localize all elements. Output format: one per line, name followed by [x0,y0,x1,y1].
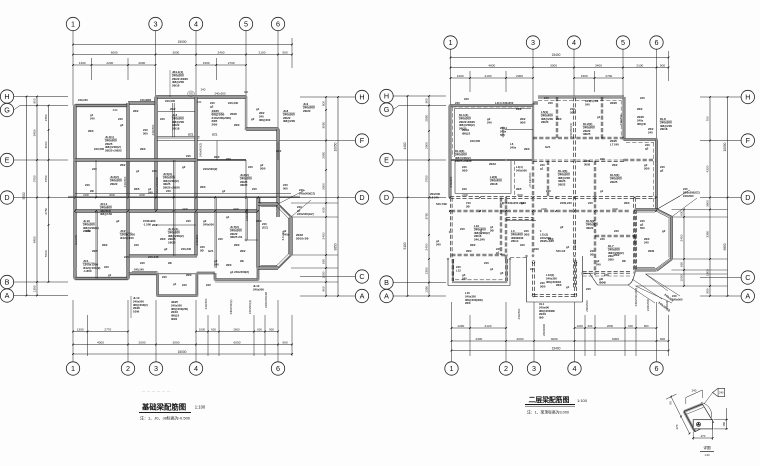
svg-text:240: 240 [124,255,129,259]
svg-text:4: 4 [194,19,198,28]
svg-text:3Φ25: 3Φ25 [240,183,248,187]
svg-text:2Φ0: 2Φ0 [624,201,630,205]
svg-text:240: 240 [544,96,549,100]
svg-text:9850: 9850 [334,243,338,250]
svg-text:3000: 3000 [551,337,558,341]
svg-text:3000: 3000 [550,63,557,67]
svg-text:240x500(2): 240x500(2) [203,167,217,171]
svg-text:240: 240 [92,167,97,171]
svg-text:3600: 3600 [109,193,115,197]
svg-text:Φ12@150: Φ12@150 [120,236,134,240]
svg-text:2750: 2750 [44,207,48,214]
corner detail: top dimension [686,390,703,398]
svg-text:GZ1: GZ1 [545,145,551,149]
svg-text:GD: GD [244,90,248,94]
svg-text:详图: 详图 [703,445,711,450]
svg-text:1:100: 1:100 [577,398,588,403]
svg-text:630: 630 [680,210,684,215]
svg-text:240: 240 [214,262,219,266]
svg-text:9500: 9500 [22,192,26,199]
svg-text:900: 900 [425,98,429,103]
svg-text:900: 900 [282,50,287,54]
svg-text:B: B [5,277,10,286]
svg-text:90: 90 [669,401,673,405]
svg-text:2400: 2400 [462,193,468,197]
svg-text:240x500: 240x500 [501,126,505,137]
left plan: interior dim ticks along D band [74,197,76,199]
svg-text:g1: g1 [566,245,570,249]
svg-text:3200: 3200 [139,193,145,197]
svg-text:2Φ0x500(4Φ0): 2Φ0x500(4Φ0) [634,288,638,307]
svg-text:240x500: 240x500 [619,114,623,125]
svg-text:2Φ2: 2Φ2 [120,163,126,167]
svg-text:1: 1 [450,364,454,373]
svg-text:g1: g1 [490,267,494,271]
svg-text:2Φ0: 2Φ0 [540,284,546,288]
svg-text:2600: 2600 [607,324,614,328]
svg-text:H: H [384,91,389,100]
svg-text:2Φ16+2Φ: 2Φ16+2Φ [296,236,309,240]
svg-text:2400,240: 2400,240 [560,201,572,205]
svg-text:240,240: 240,240 [228,101,239,105]
svg-text:240: 240 [484,261,489,265]
svg-text:2400x500: 2400x500 [633,233,637,246]
svg-text:240: 240 [248,165,253,169]
svg-text:240x500: 240x500 [683,194,694,198]
svg-text:g2: g2 [521,201,525,205]
svg-text:240x: 240x [283,232,290,236]
svg-text:g5: g5 [500,271,504,275]
svg-text:2Φ2: 2Φ2 [524,232,530,236]
svg-text:3: 3 [532,364,536,373]
svg-text:2400: 2400 [322,232,326,239]
svg-text:GZ1: GZ1 [212,133,218,137]
svg-text:H: H [359,92,364,101]
svg-text:1200: 1200 [457,74,464,78]
svg-text:270: 270 [675,424,679,429]
svg-text:3400: 3400 [233,207,239,211]
svg-text:240: 240 [299,188,304,192]
svg-text:g1: g1 [496,250,500,254]
svg-text:240x500: 240x500 [214,92,225,96]
svg-text:2Φ0: 2Φ0 [556,283,562,287]
svg-text:4: 4 [573,364,577,373]
svg-text:2Φ0: 2Φ0 [260,166,266,170]
right plan: diagonal leaders at bay [657,190,691,210]
left plan: bottom grid bubbles [66,362,79,375]
svg-text:240,500: 240,500 [94,147,105,151]
svg-text:g2: g2 [182,165,186,169]
svg-text:g1: g1 [540,166,544,170]
svg-text:240: 240 [640,96,645,100]
svg-text:240: 240 [201,88,206,92]
svg-text:600: 600 [257,327,262,331]
svg-text:2400x500: 2400x500 [646,298,650,311]
svg-text:240x500: 240x500 [195,234,199,245]
svg-text:240: 240 [197,100,202,104]
svg-text:3000: 3000 [584,162,591,166]
svg-text:2Φ0: 2Φ0 [140,147,146,151]
svg-text:240: 240 [162,275,167,279]
left plan: diagonal leaders at bay [278,190,305,204]
svg-text:2Φ0: 2Φ0 [160,237,166,241]
svg-text:4: 4 [572,38,576,47]
left plan: outer and main walls [75,105,128,107]
svg-text:3600: 3600 [517,193,523,197]
svg-text:500: 500 [283,186,288,190]
svg-text:2900: 2900 [425,142,429,149]
left plan: left dimension columns [26,97,28,296]
svg-text:240: 240 [648,130,653,134]
svg-text:2400: 2400 [218,50,225,54]
svg-text:L5 240x500: L5 240x500 [528,172,532,187]
svg-text:240: 240 [104,265,109,269]
svg-text:2Φ0: 2Φ0 [200,185,206,189]
svg-text:E: E [5,155,10,164]
svg-text:2Φ22: 2Φ22 [558,183,566,187]
svg-text:2Φ25: 2Φ25 [610,180,618,184]
left plan: top dimension sub row [73,64,156,66]
svg-text:D: D [384,193,389,202]
svg-text:A: A [360,291,365,300]
svg-text:2Φ14: 2Φ14 [511,239,519,243]
svg-text:3050: 3050 [322,121,326,128]
svg-text:240: 240 [464,97,469,101]
svg-text:2Φ0: 2Φ0 [256,219,262,223]
svg-text:240: 240 [226,157,231,161]
svg-text:JL2 240: JL2 240 [74,235,78,245]
svg-text:5100: 5100 [403,242,407,249]
svg-text:240x500(2): 240x500(2) [569,123,573,137]
svg-text:2Φ0: 2Φ0 [548,237,554,241]
svg-text:G: G [4,105,10,114]
right plan: inner dashed offsets along outer walls [452,106,531,108]
svg-text:240: 240 [218,237,223,241]
svg-text:6000: 6000 [111,50,118,54]
corner detail: wall tag [713,388,725,396]
svg-text:10050: 10050 [334,142,338,151]
svg-text:1300: 1300 [79,61,86,65]
svg-text:g2: g2 [116,219,120,223]
svg-text:240x500(2): 240x500(2) [248,300,252,314]
svg-text:2Φ0: 2Φ0 [644,166,650,170]
svg-text:2100: 2100 [259,50,266,54]
svg-text:240: 240 [436,242,441,246]
svg-text:240,ΦΦ0: 240,ΦΦ0 [140,98,152,102]
svg-text:Φ8@Φ: Φ8@Φ [637,122,647,126]
svg-text:240x500: 240x500 [516,168,527,172]
right plan: lower-left dashed room [499,198,501,256]
corner detail: right dimension [725,408,727,429]
svg-text:E: E [384,155,389,164]
svg-text:g2: g2 [251,117,255,121]
svg-text:2Φ16: 2Φ16 [172,84,180,88]
svg-text:1300: 1300 [77,327,84,331]
svg-text:1500: 1500 [203,61,210,65]
svg-text:240: 240 [160,117,165,121]
svg-text:240: 240 [148,190,153,194]
svg-text:2Φ5: 2Φ5 [212,123,218,127]
svg-text:2Φ2: 2Φ2 [170,107,176,111]
svg-text:240: 240 [460,227,465,231]
svg-text:1000: 1000 [199,327,206,331]
right plan: interior dashed beams [531,103,533,160]
svg-text:6: 6 [655,364,659,373]
right plan: bottom total [452,350,669,352]
svg-text:8450: 8450 [33,236,37,243]
svg-text:2Φ5: 2Φ5 [92,249,98,253]
left plan: interior beams [173,160,175,256]
svg-text:g2: g2 [210,104,214,108]
svg-text:g1: g1 [226,215,230,219]
left plan: grid bubbles top [66,17,79,30]
svg-text:2350: 2350 [425,267,429,274]
svg-text:ΦΦΦ: ΦΦΦ [599,280,607,284]
svg-text:10050: 10050 [723,142,727,151]
svg-text:240: 240 [596,262,601,266]
svg-text:240: 240 [487,120,492,124]
svg-text:3: 3 [154,19,158,28]
svg-text:240: 240 [672,294,677,298]
svg-text:2Φ2: 2Φ2 [133,109,139,113]
right plan: bottom sub dims [452,327,507,329]
svg-text:2000: 2000 [516,74,523,78]
svg-text:(GZ): (GZ) [262,225,268,229]
right plan: inner room rect E-D [454,161,456,194]
left plan: bottom extension lines [72,300,74,362]
svg-text:2Φ2: 2Φ2 [614,253,620,257]
svg-text:2700: 2700 [228,61,235,65]
svg-text:g2: g2 [120,123,124,127]
svg-text:240-240: 240-240 [148,255,159,259]
svg-text:2Φ20: 2Φ20 [230,112,237,116]
svg-text:3: 3 [154,364,158,373]
svg-text:2Φ20: 2Φ20 [541,120,549,124]
svg-text:240x: 240x [510,145,517,149]
svg-text:240x500: 240x500 [449,176,453,187]
svg-text:240: 240 [604,273,609,277]
svg-text:240: 240 [85,183,90,187]
right plan: top grid bubbles [444,36,457,49]
svg-text:1290: 1290 [457,324,464,328]
svg-text:2Φ20: 2Φ20 [610,101,617,105]
svg-text:3000: 3000 [173,340,180,344]
svg-text:H: H [745,92,750,101]
svg-text:ΦΦ0: ΦΦ0 [171,317,178,321]
svg-text:g1: g1 [136,169,140,173]
svg-text:基础梁配筋图: 基础梁配筋图 [141,403,186,412]
svg-text:2000: 2000 [517,337,524,341]
svg-text:240: 240 [586,287,591,291]
left plan: bay window walls [257,198,259,269]
svg-text:500: 500 [143,131,148,135]
svg-text:240: 240 [588,201,593,205]
svg-text:900: 900 [269,327,274,331]
svg-text:240: 240 [520,243,525,247]
svg-text:240: 240 [166,189,171,193]
svg-text:240: 240 [186,154,191,158]
svg-text:600: 600 [588,324,593,328]
svg-text:15400: 15400 [552,346,561,350]
svg-text:240: 240 [182,283,187,287]
svg-text:D: D [359,193,364,202]
svg-text:5: 5 [244,19,248,28]
svg-text:2Φ0: 2Φ0 [524,147,530,151]
svg-text:240: 240 [479,229,483,234]
svg-text:2Φ0: 2Φ0 [234,243,240,247]
svg-text:-1.500: -1.500 [143,222,151,226]
svg-text:240x500: 240x500 [253,287,264,291]
svg-text:240x500: 240x500 [517,308,521,319]
svg-text:2Φ0: 2Φ0 [466,249,472,253]
svg-text:240: 240 [530,267,535,271]
right plan: bottom values dims [452,340,669,342]
svg-text:2100: 2100 [636,63,643,67]
right plan: top total 15400 [451,57,669,59]
svg-text:500: 500 [640,226,645,230]
svg-text:g2: g2 [660,168,664,172]
svg-text:240: 240 [614,229,619,233]
svg-text:240: 240 [534,247,539,251]
svg-text:240x500: 240x500 [203,222,214,226]
svg-text:4: 4 [194,364,198,373]
right plan: left grid bubbles [380,89,393,102]
svg-text:4400: 4400 [403,142,407,149]
svg-text:240: 240 [186,219,191,223]
svg-text:240: 240 [644,240,649,244]
svg-text:2Φ22: 2Φ22 [110,182,118,186]
svg-text:-1.800: -1.800 [83,269,92,273]
right plan: bottom grid bubbles [445,362,458,375]
svg-text:1500: 1500 [581,74,588,78]
svg-text:240: 240 [455,101,460,105]
svg-text:注：1、J0、J8标高为-0.500: 注：1、J0、J8标高为-0.500 [140,415,191,421]
svg-text:240: 240 [548,101,553,105]
svg-text:2Φ2: 2Φ2 [570,110,576,114]
svg-text:630: 630 [322,259,326,264]
svg-text:2Φ2: 2Φ2 [240,249,246,253]
svg-text:Φ8@200: Φ8@200 [259,118,271,122]
svg-text:L8 240: L8 240 [430,195,439,199]
svg-text:240: 240 [134,243,139,247]
svg-text:240: 240 [585,102,590,106]
svg-text:2Φ0: 2Φ0 [226,263,232,267]
svg-text:D: D [745,193,750,202]
svg-text:2700: 2700 [605,74,612,78]
svg-text:240,500: 240,500 [470,139,481,143]
left plan: top dimension total 15000 [73,44,292,46]
right plan: bay leader lines to right dims [672,209,728,211]
svg-text:2Φ0x500(2): 2Φ0x500(2) [229,300,233,315]
svg-text:3300: 3300 [322,183,326,190]
svg-text:二层梁配筋图: 二层梁配筋图 [529,395,570,404]
corner detail: main shape [684,403,714,432]
svg-text:3: 3 [531,38,535,47]
svg-text:g1 240x500(2): g1 240x500(2) [230,270,249,274]
svg-text:240: 240 [152,169,157,173]
svg-text:240: 240 [113,108,118,112]
right plan: right grid bubbles [741,90,754,103]
svg-text:2200: 2200 [106,61,113,65]
svg-text:700: 700 [706,116,710,121]
svg-text:240,140: 240,140 [134,268,144,272]
right plan: bottom trapezoid entry [583,273,591,275]
svg-text:2Φ0: 2Φ0 [234,123,240,127]
svg-text:2400x500Φ8: 2400x500Φ8 [264,292,268,309]
svg-text:6: 6 [276,364,280,373]
right plan: right dimension columns [683,210,685,287]
svg-text:240x500(GZ): 240x500(GZ) [297,212,314,216]
svg-text:2: 2 [126,364,130,373]
svg-text:2Φ18: 2Φ18 [172,127,180,131]
svg-text:4000: 4000 [97,340,104,344]
left plan: top dimension values row [73,54,292,56]
left plan: column squares [74,104,76,106]
svg-text:3350: 3350 [706,230,710,237]
svg-text:2Φ5: 2Φ5 [134,187,140,191]
svg-text:1ΦΦ: 1ΦΦ [133,310,140,314]
svg-text:D: D [4,193,9,202]
svg-text:L7 240: L7 240 [610,142,619,146]
svg-text:C: C [745,273,750,282]
svg-text:1: 1 [71,19,75,28]
svg-text:1350: 1350 [425,285,429,292]
svg-text:2950: 2950 [322,151,326,158]
svg-text:2450: 2450 [44,114,48,121]
svg-text:630: 630 [322,207,326,212]
svg-text:A: A [384,291,389,300]
svg-text:A: A [745,291,750,300]
svg-text:2Φ5: 2Φ5 [608,258,614,262]
svg-text:270: 270 [701,434,706,438]
svg-text:6000: 6000 [612,337,619,341]
right plan: top sub row [451,77,534,79]
svg-text:1:100: 1:100 [195,405,206,410]
svg-text:1:20: 1:20 [704,453,710,457]
svg-text:2400: 2400 [83,193,89,197]
svg-text:3000: 3000 [44,141,48,148]
svg-text:3750: 3750 [44,175,48,182]
svg-text:900: 900 [33,98,37,103]
svg-text:2600: 2600 [233,327,240,331]
svg-text:5: 5 [621,38,625,47]
svg-text:2Φ2: 2Φ2 [637,107,643,111]
svg-text:240x500: 240x500 [672,297,683,301]
svg-text:3900: 3900 [706,200,710,207]
svg-text:1000: 1000 [577,324,584,328]
svg-text:240: 240 [118,117,123,121]
svg-text:3750: 3750 [33,175,37,182]
svg-text:g1: g1 [256,107,260,111]
svg-text:L4(1) 240x350: L4(1) 240x350 [495,101,514,105]
svg-text:4320: 4320 [706,165,710,172]
svg-text:240: 240 [600,237,605,241]
svg-text:g2: g2 [662,229,666,233]
svg-text:2ΦΦ: 2ΦΦ [648,249,655,253]
svg-text:1: 1 [449,38,453,47]
right plan: bottom-middle protrusion [526,256,528,302]
svg-text:2400x500: 2400x500 [245,208,249,221]
svg-text:240: 240 [600,157,605,161]
svg-text:950: 950 [706,288,710,293]
svg-text:240xΦ: 240xΦ [665,300,669,309]
svg-text:240: 240 [90,116,95,120]
svg-text:GZ1: GZ1 [188,133,194,137]
svg-text:3000: 3000 [172,50,179,54]
svg-text:L12: L12 [456,268,461,272]
svg-text:C: C [359,272,364,281]
svg-text:240x500(GZ): 240x500(GZ) [299,191,315,195]
